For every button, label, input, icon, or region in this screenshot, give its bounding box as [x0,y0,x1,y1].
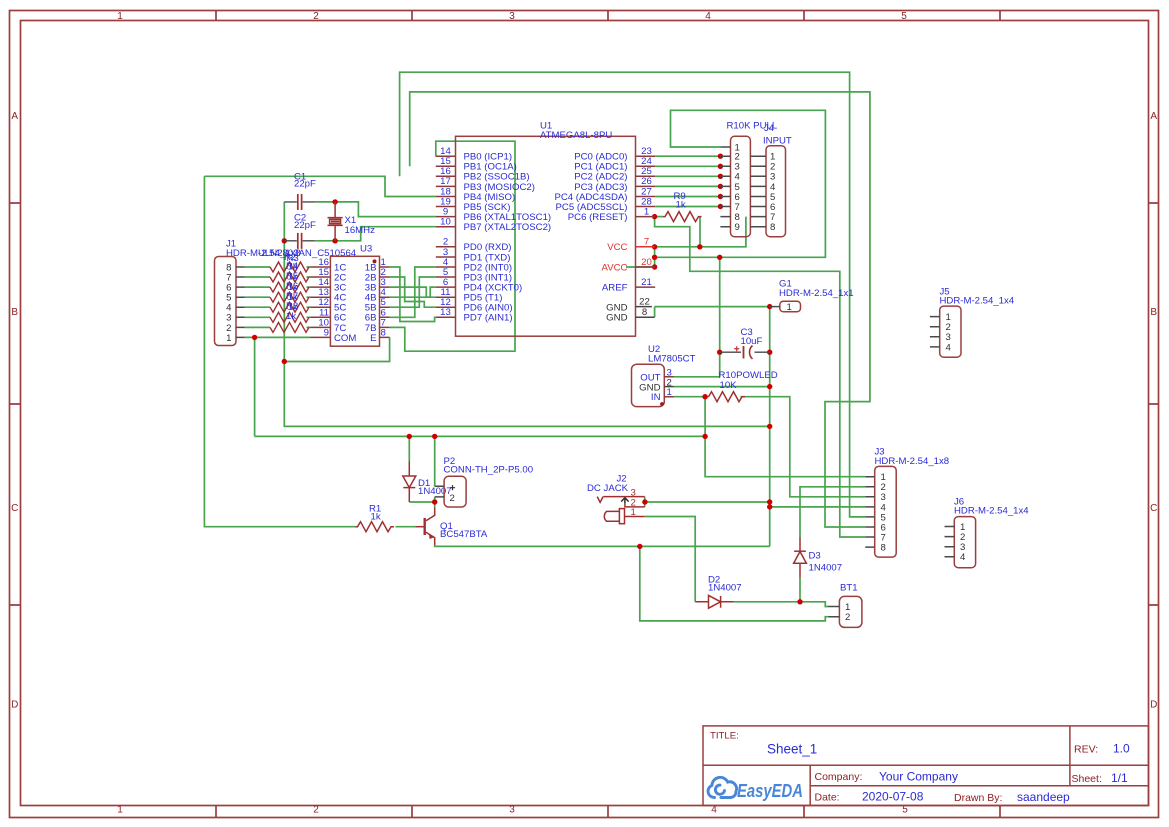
svg-text:8: 8 [770,222,775,233]
svg-text:8: 8 [642,307,647,318]
svg-text:ULN2803AN_C510564: ULN2803AN_C510564 [258,248,357,259]
wire resistor outputs to U3 input stubs [307,267,311,327]
svg-text:HDR-M-2.54_1x4: HDR-M-2.54_1x4 [954,506,1029,517]
svg-text:AREF: AREF [602,283,628,294]
resistor R9 [663,212,702,222]
svg-text:IN: IN [651,392,661,403]
U1 GND stubs black [636,307,655,318]
battery connector BT1 [839,596,862,627]
svg-text:10uF: 10uF [741,336,763,347]
svg-text:1: 1 [644,206,649,217]
wire RESET net routing to J3 pin7 [655,217,866,537]
svg-text:4: 4 [705,11,711,22]
resistor R10POWLED [709,392,746,402]
svg-text:4: 4 [946,342,952,353]
svg-text:LM7805CT: LM7805CT [648,354,696,365]
wire VCC pin row to J4 pin7 drop [655,217,746,247]
wire GND column jog to J3 pin4 [770,502,866,507]
svg-text:4: 4 [960,552,966,563]
header J3 1x8 [875,466,897,557]
wire left long vertical to R1 [204,176,355,526]
svg-text:A: A [11,111,18,122]
svg-text:9: 9 [735,222,740,233]
junction P2 pin1 column [432,434,437,439]
header J6 1x4 [954,517,975,568]
wire U2 GND to ground column [674,386,770,388]
svg-text:1N4007: 1N4007 [418,486,452,497]
junction VCC pin [652,244,657,249]
wire R9 left dot to PC6 [655,216,663,218]
svg-text:Company:: Company: [815,771,863,783]
U1 right pin names [554,152,627,294]
junction GND column lower [767,504,772,509]
title block [703,726,1149,806]
svg-text:10: 10 [440,217,451,228]
resistor bank labels R2-R8 with 1k overlays [284,252,299,322]
junction R10K pin6 [718,194,723,199]
svg-text:1: 1 [787,302,792,313]
wire U2 OUT to VCC column [674,376,720,378]
svg-text:C: C [11,503,18,514]
EasyEDA logo [708,777,803,801]
R10K pin stubs [720,147,730,227]
svg-text:EasyEDA: EasyEDA [737,781,803,801]
wire PC1 to R10K pin3 [655,165,720,167]
U3 right pin numbers [381,257,387,338]
junction PC6 reset [652,214,657,219]
svg-text:A: A [1150,111,1157,122]
wire PC4 to R10K pin6 [655,196,720,198]
R10K pin numbers [735,142,741,233]
J4 pin numbers [770,152,776,234]
svg-text:1/1: 1/1 [1111,771,1128,785]
U3 right pin names [365,262,377,343]
junction C3 negative [767,350,772,355]
wire ground rail drop to bottom loop [640,546,829,621]
svg-text:E: E [370,333,376,344]
wire crystal top node to PB6 [315,202,436,217]
svg-text:20: 20 [641,257,652,268]
svg-text:AVCC: AVCC [602,262,628,273]
svg-text:1N4007: 1N4007 [708,583,742,594]
U1 left pin numbers [440,146,451,318]
junction ground rail drop [637,544,642,549]
svg-text:saandeep: saandeep [1017,790,1070,804]
svg-text:1: 1 [226,333,231,344]
U3 left pin stubs [311,267,331,337]
svg-text:COM: COM [334,333,356,344]
wire U2 IN to R10POWLED [674,396,709,398]
svg-text:PC6 (RESET): PC6 (RESET) [568,212,628,223]
U2 pin stubs [664,377,674,397]
svg-text:22pF: 22pF [294,220,316,231]
junction VCC loop start [652,255,657,260]
junction C2 left node [282,238,287,243]
wire U3 3B to PD5 crossover [390,287,436,297]
connector J2 DC JACK [597,497,645,524]
svg-text:REV:: REV: [1074,744,1098,756]
svg-text:2020-07-08: 2020-07-08 [862,790,924,804]
junction G1 ground [767,304,772,309]
svg-text:5: 5 [901,11,907,22]
wire U3 1B to PD7 crossover [390,267,436,322]
J1 pin stubs [236,267,245,337]
svg-text:10K: 10K [720,380,738,391]
U3 ULN2803 body [330,256,379,346]
U1 right pin stubs PC0-PC6, AREF [636,156,656,287]
junction U2 GND [767,384,772,389]
junction J2 pin2 [642,499,647,504]
svg-text:DC JACK: DC JACK [587,483,629,494]
svg-text:1: 1 [117,804,123,815]
wire U3 6B to PD2 crossover [390,267,436,317]
resistor network R10K PULL body [731,136,751,236]
wire IN node column down to rail A and J3 pin1 [705,397,865,477]
resistor R5 [270,292,309,302]
junction D1 top [407,434,412,439]
junction R10K pin5 [718,184,723,189]
svg-text:Sheet_1: Sheet_1 [767,742,817,757]
svg-text:Drawn By:: Drawn By: [954,792,1002,804]
wire D3 top to J3 pin2 [800,487,865,537]
wire Q1 emitter to ground rail [435,545,770,546]
svg-text:1: 1 [117,11,123,22]
svg-text:2: 2 [450,493,455,504]
svg-text:9: 9 [324,327,329,338]
U3 left pin names [334,262,356,343]
svg-text:BC547BTA: BC547BTA [440,529,488,540]
svg-text:U3: U3 [360,244,372,255]
wire R1 right lead to Q1 base [396,526,416,528]
U1 right pin numbers [641,146,652,288]
svg-text:8: 8 [381,327,386,338]
svg-text:BT1: BT1 [840,583,858,594]
svg-text:HDR-M-2.54_1x4: HDR-M-2.54_1x4 [940,296,1015,307]
J4 INPUT header body [766,146,786,237]
J4 pin stubs [750,156,766,227]
wire PC0 to R10K pin2 [655,155,720,157]
resistor R8 [270,322,309,332]
wire VCC/AVCC vertical link [654,247,656,267]
wire U1 GND pins to G1 [655,307,770,318]
svg-text:22pF: 22pF [294,179,316,190]
junction R10K pin7 [718,204,723,209]
wire U3 2B to PD6 crossover [390,277,436,307]
svg-text:1N4007: 1N4007 [809,562,843,573]
wire J1 pin1 column down to rail A [254,337,256,436]
wire U3 5B to PD3 crossover [390,277,436,307]
diode D3 [794,537,807,578]
svg-text:16MHz: 16MHz [345,225,376,236]
U1 left pin stubs [436,156,655,317]
junction rail A right end [702,434,707,439]
resistor R7 [270,312,309,322]
svg-text:Sheet:: Sheet: [1072,773,1102,785]
wire PB4 net: left column top run to PB4 [204,176,435,196]
transistor Q1 BC547BTA [426,507,435,545]
svg-text:2: 2 [313,804,319,815]
svg-text:C: C [1150,503,1157,514]
svg-text:VCC: VCC [607,242,627,253]
wire VCC loop row to R10K pin1 [655,110,826,257]
header G1 [780,301,801,312]
wire R9 right lead down to VCC row [699,217,701,247]
svg-text:D: D [1150,700,1157,711]
wire P2 pin1 column [434,436,436,486]
wire PC5 to R10K pin7 [655,206,720,208]
resistor R6 [270,302,309,312]
svg-text:1: 1 [667,387,672,398]
J1 pin numbers [226,262,232,343]
svg-text:1.0: 1.0 [1113,742,1130,756]
U3 left pin numbers [318,257,329,338]
wire J1 pin1 to U3 COM [245,336,311,338]
svg-text:INPUT: INPUT [763,136,792,147]
wire rail A power input [255,435,705,437]
diode D1 [403,462,416,503]
svg-text:HDR-M-2.54_1x8: HDR-M-2.54_1x8 [875,456,950,467]
U1 VCC stub red [636,246,655,248]
junction C3 positive [717,350,722,355]
junction U3 E net [282,359,287,364]
wire VCC column down to C3+ and U2 OUT [719,257,721,377]
wire PC3 to R10K pin5 [655,185,720,187]
wire loop PB1 to J3 pin6 [410,92,870,527]
U3 pin1 orientation dot [373,259,377,263]
svg-text:3: 3 [509,804,515,815]
junction R10K pin2 [718,154,723,159]
capacitor C1 [284,201,315,203]
junction R9 to VCC [697,244,702,249]
diode D2 [695,595,733,608]
resistor R3 [270,272,309,282]
junction D1/P2.2/Q1 collector [432,499,437,504]
header J5 1x4 [940,306,961,357]
wire U3 4B to PD4 crossover [390,287,436,297]
wire U3 E pin down to E junction [284,337,389,361]
svg-text:1k: 1k [371,512,381,523]
junction J1 pin1 net [252,335,257,340]
wire D3 bottom lead to D2 node [799,578,801,602]
capacitor C3 polarized [720,351,770,353]
U1 left pin names [464,152,552,324]
wire loop PB2 to J3 pin5 [400,72,866,517]
capacitor C2 [284,240,315,242]
svg-text:3: 3 [509,11,515,22]
svg-text:CONN-TH_2P-P5.00: CONN-TH_2P-P5.00 [444,465,534,476]
junction R10K pin4 [718,174,723,179]
svg-text:1k: 1k [676,200,686,211]
wire C1/C2 left column [283,202,285,241]
junction crystal bottom node [332,238,337,243]
junction D2/D3/BT1 node [797,599,802,604]
svg-text:ATMEGA8L-8PU: ATMEGA8L-8PU [540,130,612,141]
wire left column down to E junction and rail B [284,241,769,427]
svg-text:B: B [11,307,18,318]
svg-text:1: 1 [631,507,636,518]
crystal X1 [328,202,343,241]
svg-text:2: 2 [313,11,319,22]
svg-text:D: D [11,700,18,711]
svg-text:1k: 1k [286,311,296,322]
svg-text:Date:: Date: [815,792,840,804]
svg-text:HDR-M-2.54_1x1: HDR-M-2.54_1x1 [779,288,854,299]
resistor R2 [270,262,309,272]
wire AVCC stub overlap [626,266,655,268]
svg-text:8: 8 [881,543,886,554]
svg-text:7: 7 [644,237,649,248]
svg-text:22: 22 [639,297,650,308]
resistor R4 [270,282,309,292]
svg-text:PD7 (AIN1): PD7 (AIN1) [464,313,513,324]
regulator U2 LM7805CT body [632,364,665,406]
svg-text:GND: GND [606,313,627,324]
junction VCC loop row [717,255,722,260]
wire J2 pin1 to D2 [645,517,696,602]
svg-text:J4: J4 [764,123,775,134]
svg-text:TITLE:: TITLE: [710,731,739,742]
wire D2 cathode to BT1 pin1 [734,602,829,607]
junction U2 IN node [702,394,707,399]
wire crystal bottom node to PB7 [315,227,436,241]
U1 ATMEGA8L-8PU body [456,136,636,336]
svg-text:Your Company: Your Company [879,770,958,784]
wire ground column G1 to bottom rail [769,307,771,547]
junction R10K pin3 [718,164,723,169]
junction rail B at GND column [767,424,772,429]
junction GND column upper [767,499,772,504]
svg-text:D3: D3 [809,551,821,562]
svg-text:2: 2 [845,612,850,623]
wire P2 pin2 / D1 bottom / Q1 collector node [409,497,434,507]
svg-text:21: 21 [641,277,652,288]
connector P2 [444,476,466,507]
wire J1 pin8-2 rows to resistors [245,267,271,327]
wire J2 pin2-3 short and run to GND column [645,497,770,507]
wire D1 top lead [408,436,410,461]
U3 right pin stubs [380,267,390,337]
wire R10POWLED right to J3 pin3 [741,397,866,497]
svg-text:PB7 (XTAL2TOSC2): PB7 (XTAL2TOSC2) [464,222,552,233]
U1 AVCC stub [636,266,655,268]
wire U3 7B to PB0 through U1 [390,141,515,351]
resistor R1 [356,522,395,532]
junction AVCC pin [652,264,657,269]
junction crystal top node [332,199,337,204]
J1 header 1x8 body [215,257,237,346]
svg-text:B: B [1150,307,1157,318]
svg-text:13: 13 [440,307,451,318]
wire PC2 to R10K pin4 [655,175,720,177]
